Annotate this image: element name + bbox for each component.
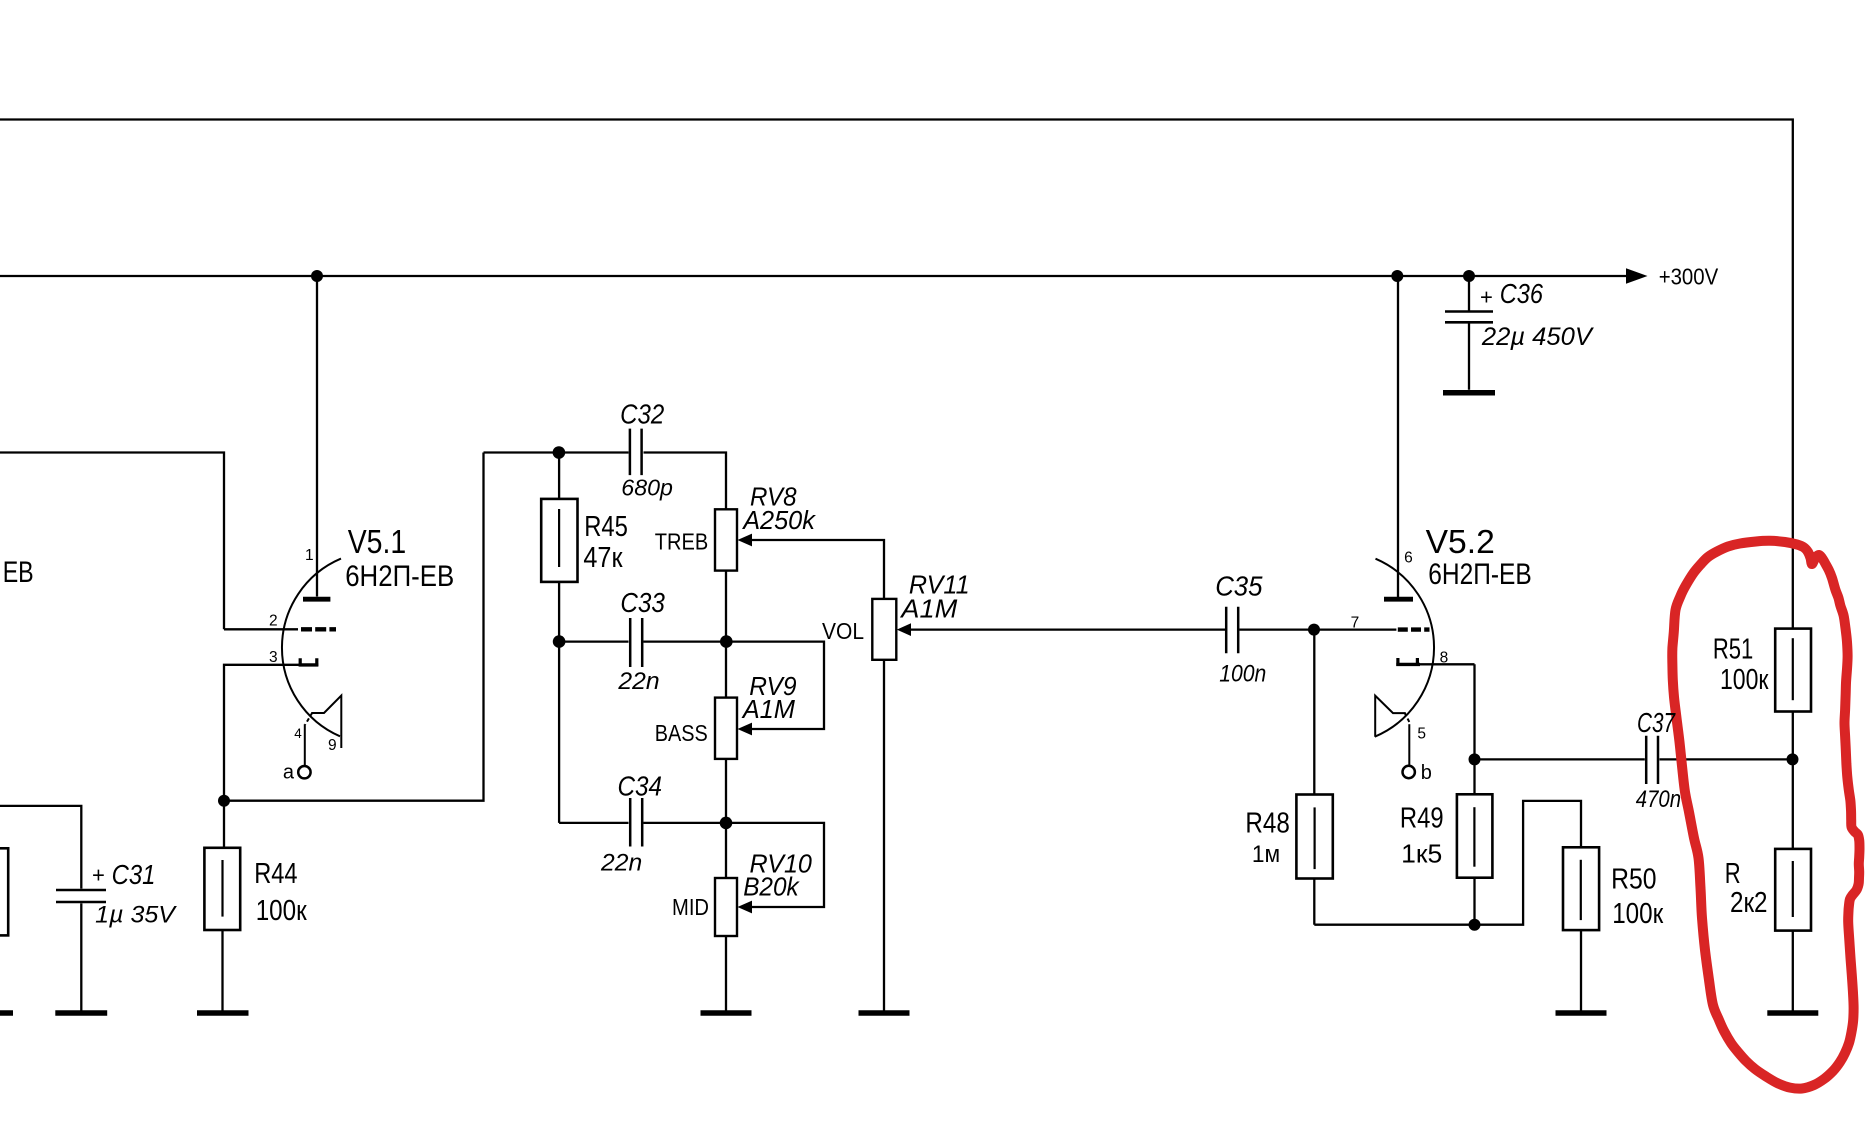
svg-text:1м: 1м [1252,841,1280,868]
svg-text:C36: C36 [1500,278,1544,309]
svg-text:1µ 35V: 1µ 35V [95,902,177,929]
svg-text:22n: 22n [600,849,642,876]
svg-text:8: 8 [1440,650,1449,667]
svg-text:TREB: TREB [655,529,709,555]
svg-text:A1M: A1M [899,596,958,624]
svg-text:R50: R50 [1611,863,1656,895]
svg-text:C34: C34 [618,771,663,802]
svg-text:R: R [1725,858,1741,890]
svg-text:a: a [283,762,295,784]
svg-text:ЕВ: ЕВ [3,556,34,589]
svg-text:3: 3 [269,649,278,666]
svg-text:4: 4 [294,726,302,741]
svg-text:R49: R49 [1400,802,1444,834]
svg-text:9: 9 [328,737,337,754]
svg-text:5: 5 [1417,726,1426,743]
svg-text:A1M: A1M [741,696,796,724]
svg-text:6: 6 [1404,550,1413,567]
svg-text:+: + [92,863,105,888]
svg-text:2к2: 2к2 [1730,887,1768,919]
svg-text:R45: R45 [584,511,628,543]
svg-text:C33: C33 [620,587,665,618]
svg-text:C32: C32 [620,398,664,429]
svg-text:VOL: VOL [822,618,864,644]
svg-text:100к: 100к [256,895,307,927]
svg-text:470n: 470n [1636,786,1681,813]
svg-text:BASS: BASS [655,720,708,746]
svg-text:+300V: +300V [1659,263,1719,289]
svg-text:A250k: A250k [741,507,816,535]
svg-text:22µ 450V: 22µ 450V [1481,323,1594,351]
svg-text:6Н2П-ЕВ: 6Н2П-ЕВ [1428,558,1531,591]
svg-text:MID: MID [672,894,709,920]
svg-text:b: b [1421,762,1432,784]
svg-text:B20k: B20k [743,874,800,902]
svg-text:R44: R44 [254,858,297,890]
svg-text:V5.2: V5.2 [1426,523,1495,560]
svg-text:+: + [1480,285,1493,310]
svg-text:R51: R51 [1713,633,1753,665]
svg-text:R48: R48 [1245,808,1289,840]
svg-text:47к: 47к [583,542,623,574]
svg-text:100n: 100n [1219,661,1266,688]
svg-text:680p: 680p [621,475,673,501]
svg-text:2: 2 [269,613,278,630]
svg-text:7: 7 [1351,614,1360,631]
svg-text:C37: C37 [1637,707,1676,738]
svg-text:C35: C35 [1215,571,1263,602]
svg-text:100к: 100к [1612,898,1663,930]
svg-text:100к: 100к [1720,664,1769,696]
svg-text:1к5: 1к5 [1401,839,1442,869]
svg-text:C31: C31 [112,859,156,890]
svg-text:1: 1 [305,547,314,564]
svg-text:6Н2П-ЕВ: 6Н2П-ЕВ [345,560,454,593]
svg-text:22n: 22n [617,668,659,695]
svg-text:V5.1: V5.1 [348,523,407,560]
